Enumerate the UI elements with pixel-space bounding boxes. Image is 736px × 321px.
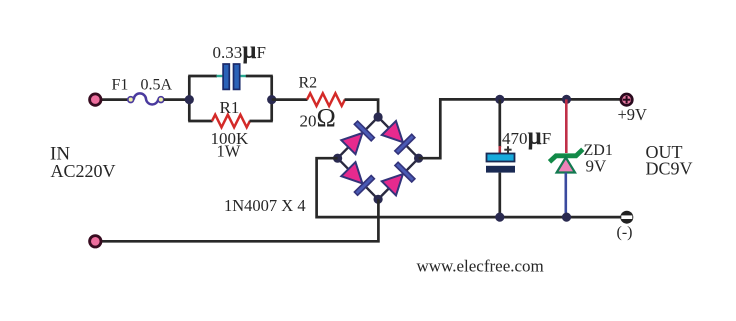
wire fuse to node A [164, 98, 190, 101]
junction node -rail at ZD1 [562, 213, 571, 222]
resistor R2 zigzag [307, 93, 345, 106]
svg-text:0.5A: 0.5A [141, 77, 173, 94]
wire left vertical of RC box [188, 76, 191, 121]
terminal minus output [620, 211, 633, 224]
wire negative rail from bridge left corner [317, 158, 623, 217]
wire top branch right segment [246, 75, 273, 78]
wire bottom AC input terminal to bridge bottom [100, 199, 378, 241]
bridge side bottom-right wire [378, 158, 419, 199]
terminal AC input top [90, 94, 101, 105]
svg-text:0.33μF: 0.33μF [213, 37, 266, 64]
svg-text:20Ω: 20Ω [300, 104, 336, 133]
svg-text:1N4007 X 4: 1N4007 X 4 [224, 196, 306, 215]
junction node right of RC box [267, 95, 276, 104]
diode D2 top-right [382, 121, 415, 154]
wire bridge right corner to +rail [419, 99, 623, 158]
svg-text:9V: 9V [586, 157, 608, 176]
svg-text:R2: R2 [299, 75, 318, 92]
capacitor C2 470uF electrolytic [486, 154, 515, 173]
wire C2 bottom lead [498, 173, 501, 218]
svg-text:R1: R1 [220, 98, 240, 117]
wire top branch left segment [188, 75, 217, 78]
svg-text:DC9V: DC9V [646, 159, 693, 179]
wire R2 to bridge top corner [345, 100, 379, 117]
terminal +9V [621, 94, 632, 105]
junction node -rail at C2 [495, 213, 504, 222]
zener diode ZD1 [550, 149, 583, 172]
svg-text:AC220V: AC220V [51, 161, 116, 181]
wire bottom branch right segment [250, 120, 273, 123]
wire zener top lead red [565, 99, 568, 153]
junction node bridge right [414, 154, 423, 163]
junction node left of RC box [185, 95, 194, 104]
svg-text:(-): (-) [617, 224, 633, 241]
svg-text:www.elecfree.com: www.elecfree.com [417, 257, 544, 276]
bridge side top-left wire [338, 117, 379, 158]
resistor R1 zigzag [212, 115, 250, 128]
capacitor C1 0.33uF plates [223, 64, 240, 89]
bridge side bottom-left wire [338, 158, 379, 199]
wire zener bottom lead blue [564, 173, 567, 218]
diode D1 top-left [341, 121, 374, 154]
bridge side top-right wire [378, 117, 419, 158]
svg-text:1W: 1W [217, 142, 241, 161]
wire bottom branch left segment [188, 120, 212, 123]
diode D3 bottom-left [341, 162, 374, 195]
fuse F1 [128, 93, 164, 104]
wire right vertical of RC box [270, 76, 273, 121]
svg-text:+9V: +9V [618, 105, 648, 124]
junction node bridge top [374, 112, 383, 121]
svg-text:470μF: 470μF [502, 123, 551, 150]
diode D4 bottom-right [382, 162, 415, 195]
terminal AC input bottom [90, 236, 101, 247]
svg-text:F1: F1 [112, 77, 129, 94]
junction node +rail at C2 [495, 95, 504, 104]
wire teal stub left of C1 [217, 75, 223, 77]
wire node to R2 [272, 98, 308, 101]
junction node +rail at ZD1 [562, 95, 571, 104]
wire teal stub right of C1 [240, 75, 247, 77]
wire C2 top lead [498, 99, 501, 147]
junction node bridge bottom [374, 195, 383, 204]
wire from top input terminal to fuse [100, 98, 128, 101]
junction node bridge left [333, 154, 342, 163]
label plus of C2 [504, 146, 511, 153]
